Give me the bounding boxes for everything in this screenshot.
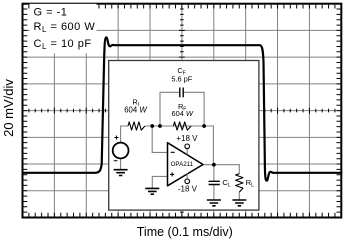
inset box (circuit schematic panel) xyxy=(109,61,259,211)
ground: CL xyxy=(207,200,221,206)
annotation: G = -1, RL = 600 W, CL = 10 pF xyxy=(30,4,97,54)
wire: CF feedback branch top loop xyxy=(160,92,204,126)
svg-text:604 W: 604 W xyxy=(172,109,194,118)
svg-text:20 mV/div: 20 mV/div xyxy=(1,79,16,137)
svg-text:OPA211: OPA211 xyxy=(171,161,194,168)
resistor RF 604 W xyxy=(172,102,194,130)
op-amp U1 OPA211 xyxy=(168,143,204,186)
capacitor CF 5.6 pF xyxy=(171,66,192,97)
wire: non-inverting input to ground xyxy=(152,176,167,188)
ground: RL xyxy=(232,200,246,206)
node A: inverting summing junction dot xyxy=(150,124,154,128)
supply +18 V (positive rail pin) xyxy=(176,134,198,155)
voltage source VIN (circle with + / -) xyxy=(113,136,129,161)
capacitor CL (load capacitor) xyxy=(209,178,231,189)
ground: non-inverting input xyxy=(145,188,159,194)
node: CF left tap dot xyxy=(158,124,162,128)
wire: inverting input from node A xyxy=(152,126,167,152)
node: CF right tap dot xyxy=(202,124,206,128)
svg-text:604 W: 604 W xyxy=(124,106,147,115)
wire: output node to CL and RL xyxy=(203,165,239,200)
svg-text:-18 V: -18 V xyxy=(178,185,198,194)
svg-text:+18 V: +18 V xyxy=(176,134,198,143)
wire: input network row (Vin top to inverting summing node and feedback taps) xyxy=(121,126,214,165)
supply -18 V (negative rail pin) xyxy=(178,173,198,193)
resistor RL (load resistor) xyxy=(236,174,254,192)
node: output junction dot xyxy=(212,163,216,167)
svg-text:5.6 pF: 5.6 pF xyxy=(171,74,192,83)
resistor Ri 604 W xyxy=(124,98,147,131)
svg-text:Time (0.1 ms/div): Time (0.1 ms/div) xyxy=(137,225,233,239)
svg-text:G = -1: G = -1 xyxy=(34,7,68,19)
ground: source xyxy=(114,170,128,176)
wire: source to ground xyxy=(120,158,122,169)
waveform trace: small-signal step response xyxy=(22,37,343,180)
